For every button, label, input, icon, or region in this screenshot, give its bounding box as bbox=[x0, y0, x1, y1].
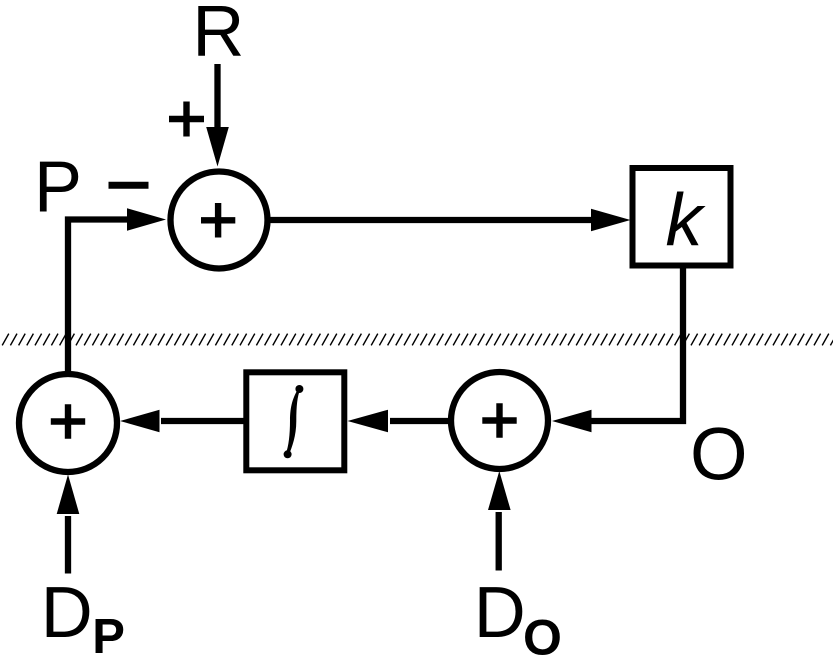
plus inside S2 bbox=[51, 404, 85, 438]
wire disturbance DP input bbox=[65, 516, 71, 574]
wire disturbance DO input bbox=[496, 512, 502, 571]
arrowhead into k box bbox=[591, 209, 631, 232]
arrowhead into summing junction S1 from top bbox=[206, 127, 229, 167]
plus inside S1 bbox=[201, 203, 235, 238]
gain block k box bbox=[633, 168, 731, 266]
wire integrator to summing junction S2 bbox=[161, 418, 245, 424]
arrowhead into S2 from below bbox=[57, 475, 80, 515]
svg-text:P: P bbox=[34, 148, 82, 228]
arrowhead into S3 from below bbox=[488, 471, 511, 510]
wire S1 to k box bbox=[267, 217, 600, 223]
svg-text:k: k bbox=[666, 179, 707, 262]
summing junction S2 (bottom left) bbox=[19, 374, 117, 472]
minus sign at P input bbox=[109, 182, 149, 189]
wire R input vertical bbox=[214, 64, 220, 140]
arrowhead into summing junction S3 from right bbox=[552, 410, 592, 433]
wire S3 to integrator bbox=[390, 418, 452, 424]
integrator box bbox=[246, 372, 344, 470]
svg-text:D: D bbox=[41, 573, 93, 653]
svg-text:P: P bbox=[92, 610, 125, 661]
svg-text:D: D bbox=[474, 573, 526, 653]
arrowhead into integrator box bbox=[348, 410, 389, 433]
integral sign bbox=[284, 385, 304, 458]
hatched membrane band bbox=[2, 334, 833, 346]
svg-text:R: R bbox=[192, 0, 244, 71]
arrowhead into summing junction S1 from left bbox=[127, 208, 166, 231]
plus inside S3 bbox=[482, 403, 516, 437]
summing junction S3 (bottom right) bbox=[451, 372, 548, 469]
svg-text:O: O bbox=[690, 413, 748, 496]
wire k output down and left to summing junction S3 bbox=[590, 268, 683, 421]
summing junction S1 (top) bbox=[171, 172, 268, 269]
wire P feedback corner bbox=[68, 220, 130, 373]
svg-text:O: O bbox=[523, 610, 562, 661]
arrowhead into summing junction S2 from right bbox=[120, 410, 160, 433]
plus sign at R input bbox=[169, 102, 204, 137]
